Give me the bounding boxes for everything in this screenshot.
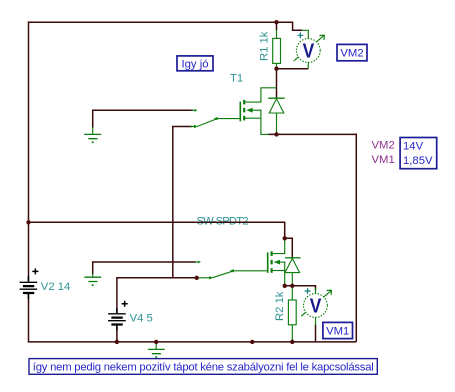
battery V4 top lead [116, 308, 118, 313]
wire top rail from left border to R1 node [29, 21, 277, 23]
node dot R1 bottom / VM2 minus [274, 67, 278, 71]
voltmeter VM1 dial circle [304, 294, 328, 318]
label box VM1 [323, 322, 353, 338]
battery V2 plates [20, 282, 38, 289]
wire left rail upper (top rail to V2 battery) [28, 21, 30, 281]
wire V4 battery minus lead to bottom rail [116, 326, 118, 342]
switch SW2 common contact arrow [230, 269, 234, 272]
svg-text:VM2: VM2 [340, 48, 363, 60]
svg-text:Igy jó: Igy jó [181, 59, 208, 71]
ground G1 bars [84, 134, 101, 138]
battery V2 bottom lead [27, 294, 29, 299]
wire gate net horizontal y=222 from left rail to drain node branch [29, 222, 285, 238]
node dot G3 / bottom rail [154, 340, 158, 344]
switch SW1 bottom throw contact tip [191, 126, 195, 128]
wire R2 bottom lead to bottom rail node [291, 339, 293, 342]
resistor R1 body [273, 38, 281, 63]
battery V4 bottom lead [116, 325, 118, 330]
ground G1 dot [92, 141, 94, 143]
transistor Q2 body arrow [274, 260, 280, 265]
transistor Q1 channel bars [243, 100, 245, 121]
voltmeter VM2 bottom terminal lead [307, 62, 309, 68]
svg-text:T1: T1 [230, 73, 243, 85]
wire SW2 top throw to ground G2 [93, 262, 196, 275]
wire right rail [355, 134, 357, 342]
svg-text:14V: 14V [403, 140, 424, 152]
ground G2 lead [92, 274, 94, 278]
annotation box bottom comment [29, 359, 377, 375]
switch SW1 top throw contact tip [192, 109, 195, 111]
resistor R1 bottom lead [276, 63, 278, 67]
wire vertical x=172.8 linking SW1 bottom throw to SW2 bottom throw [172, 127, 174, 278]
label box VM2 [337, 44, 367, 60]
svg-text:V4 5: V4 5 [130, 313, 153, 325]
transistor Q2 (lower MOSFET) gate bar [267, 252, 269, 273]
ground G2 bars [84, 277, 101, 281]
svg-text:R1 1k: R1 1k [259, 31, 271, 61]
ground G1 lead [92, 127, 94, 134]
switch SW2 top throw open contact arrow [198, 261, 201, 264]
wire M2 source node to VM1 plus terminal [285, 286, 316, 291]
battery V4 plates [108, 314, 126, 321]
voltmeter VM2 plus mark [297, 32, 303, 38]
voltmeter VM1 plus mark [305, 288, 311, 294]
node dot bottom rail joint [250, 340, 254, 344]
wire SW1 top throw to ground G1 [93, 110, 193, 128]
wire M2 drain node stub to diode D2 cathode [285, 238, 293, 258]
transistor Q1 body lead [248, 109, 261, 111]
wire VM2 plus terminal branch [277, 22, 303, 30]
diode D1 anode lead down to T1 source node [276, 113, 278, 134]
node dot T1 source / mid rail [274, 132, 278, 136]
transistor Q1 drain lead [245, 88, 277, 102]
transistor Q1 source lead [245, 117, 261, 119]
wire R1 node to R1 top lead [276, 22, 278, 30]
transistor Q2 body lead [275, 261, 284, 263]
wire SW1 bottom throw stub [172, 126, 192, 128]
svg-text:V: V [310, 295, 322, 317]
switch SW1 top throw open contact arrow [194, 109, 197, 112]
battery V4 plus mark [122, 301, 128, 307]
switch SW2 top throw contact tip [195, 261, 198, 263]
switch SW2 common lead to Q2 gate [233, 270, 268, 272]
annotation box "Igy jó" [177, 56, 213, 71]
resistor R2 bottom lead [291, 325, 293, 341]
transistor Q2 channel bars [271, 251, 273, 272]
wire left rail lower (V2 battery to bottom rail) [28, 294, 30, 342]
svg-text:V: V [303, 40, 315, 62]
diode D2 triangle [285, 258, 300, 272]
switch SW1 common contact arrow [214, 117, 218, 120]
svg-text:V2 14: V2 14 [41, 281, 71, 293]
voltmeter VM1 arrow head [327, 290, 332, 295]
node dot R2 bottom / bottom rail [290, 340, 294, 344]
node dot V4 / bottom rail [115, 340, 119, 344]
node dot Q2 drain branch [283, 236, 287, 240]
ground G3 dot [155, 356, 157, 358]
battery V2 top lead [27, 276, 29, 282]
svg-text:VM1: VM1 [326, 326, 349, 338]
transistor Q2 source lead [272, 270, 285, 272]
wire mid rail from T1 source node to right rail [268, 133, 357, 135]
switch SW1 lever [197, 119, 216, 126]
readout value box [400, 138, 437, 169]
wire bottom rail [28, 341, 357, 343]
svg-text:R2 1k: R2 1k [274, 291, 286, 321]
node dot D2 anode / R2 top [290, 284, 294, 288]
resistor R2 body [288, 300, 296, 325]
transistor Q1 (T1 MOSFET) gate bar [239, 102, 241, 122]
switch SW2 bottom throw contact arrow [209, 276, 213, 279]
wire VM1 minus terminal down to bottom rail [315, 325, 317, 342]
node dot top rail / R1 [274, 20, 278, 24]
switch SW1 bottom throw contact arrow [194, 125, 198, 128]
switch SW2 lever [213, 271, 233, 278]
svg-text:1,85V: 1,85V [403, 155, 433, 167]
voltmeter VM2 needle (under dial) [294, 37, 323, 61]
voltmeter VM2 dial circle [296, 39, 320, 63]
voltmeter VM1 needle (under dial) [301, 292, 329, 316]
svg-text:VM1: VM1 [372, 154, 395, 166]
battery V2 plus mark [32, 268, 38, 274]
ground G2 dot [92, 284, 94, 286]
diode D2 anode lead down to source node [291, 273, 293, 286]
svg-text:SW-SPDT2: SW-SPDT2 [197, 216, 249, 228]
ground G3 bars [148, 349, 165, 353]
resistor R1 top lead [276, 30, 278, 38]
diode D2 cathode bar [285, 257, 301, 259]
diode D1 cathode bar [268, 97, 284, 99]
voltmeter VM1 bottom terminal lead [315, 317, 317, 325]
node dot Q2 source [283, 284, 287, 288]
transistor Q2 drain lead [272, 238, 285, 253]
resistor R2 top lead [291, 286, 293, 300]
wire gate net segment over SW2 label [194, 221, 252, 223]
transistor Q1 source down lead to mid rail [261, 110, 269, 135]
node dot left rail / gate net [26, 220, 30, 224]
wire SW2 bottom throw to V4 branch [117, 278, 197, 313]
svg-text:így nem pedig nekem pozitív tá: így nem pedig nekem pozitív tápot kéne s… [33, 362, 374, 374]
diode D1 triangle [269, 99, 284, 113]
svg-text:VM2: VM2 [372, 140, 395, 152]
wire VM2 minus terminal to R1 bottom node [277, 68, 309, 70]
wire R1 bottom node down to diode D1 cathode [276, 67, 278, 99]
switch SW2 bottom throw contact tip [197, 277, 210, 279]
voltmeter VM1 top terminal lead [315, 288, 317, 294]
voltmeter VM2 top terminal lead [302, 30, 308, 38]
voltmeter VM2 arrow head [320, 35, 325, 40]
ground G3 lead [155, 342, 157, 350]
transistor Q2 source down lead to source node [284, 261, 286, 285]
transistor Q1 body arrow [246, 108, 252, 113]
switch SW1 common lead to Q1 gate [216, 118, 240, 120]
node dot SW2 bottom throw [195, 276, 199, 280]
